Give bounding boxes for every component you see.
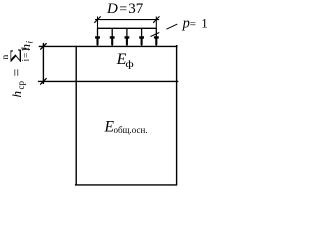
svg-text:=: = [119, 2, 127, 17]
svg-text:h: h [9, 91, 24, 98]
svg-text:=: = [190, 18, 196, 30]
svg-text:общ.осн.: общ.осн. [114, 125, 148, 135]
svg-text:ф: ф [125, 59, 133, 69]
svg-text:=: = [10, 69, 25, 77]
svg-text:i: i [24, 41, 34, 44]
svg-text:h: h [18, 44, 33, 51]
svg-text:D: D [106, 1, 118, 17]
svg-text:n: n [1, 55, 11, 60]
svg-text:ср: ср [16, 81, 26, 90]
svg-text:1: 1 [201, 16, 208, 31]
svg-text:p: p [182, 16, 190, 32]
svg-text:37: 37 [128, 1, 144, 17]
